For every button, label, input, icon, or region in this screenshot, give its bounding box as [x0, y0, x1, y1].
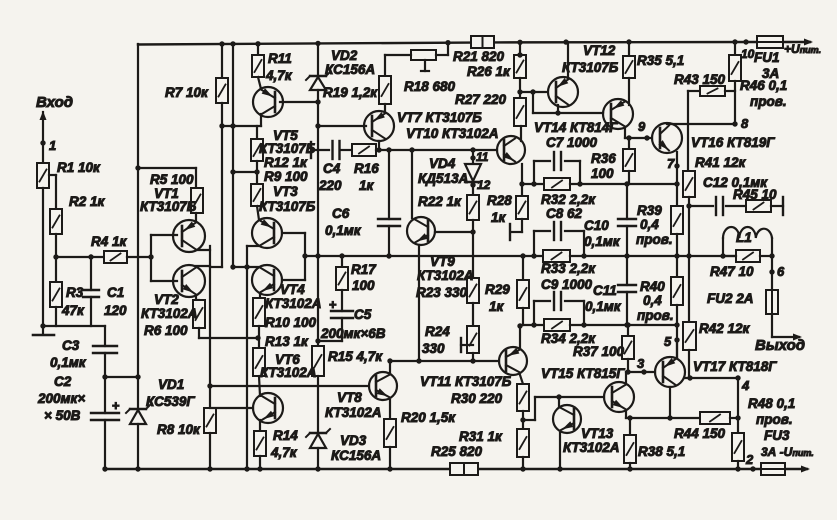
svg-text:R21 820: R21 820 [453, 49, 505, 64]
svg-text:+: + [329, 297, 337, 312]
svg-text:R31 1к: R31 1к [459, 429, 503, 444]
svg-text:0,1мк: 0,1мк [585, 299, 622, 314]
svg-text:R28: R28 [487, 193, 512, 208]
svg-text:КТ3102А: КТ3102А [417, 268, 474, 283]
svg-text:R5 100: R5 100 [150, 172, 194, 187]
svg-text:R10 100: R10 100 [265, 315, 317, 330]
svg-text:R8 10к: R8 10к [157, 422, 201, 437]
svg-text:C2: C2 [54, 374, 72, 389]
svg-text:VT2: VT2 [154, 292, 179, 307]
svg-text:R48 0,1: R48 0,1 [748, 396, 795, 411]
svg-text:Вход: Вход [36, 94, 73, 111]
svg-text:4,7к: 4,7к [265, 68, 293, 83]
svg-text:R6 100: R6 100 [144, 323, 188, 338]
svg-text:4: 4 [741, 378, 750, 393]
svg-text:VD2: VD2 [331, 48, 358, 63]
svg-text:R7 10к: R7 10к [165, 85, 209, 100]
svg-text:1к: 1к [489, 299, 505, 314]
svg-text:200мк×: 200мк× [37, 391, 85, 406]
svg-text:R2 1к: R2 1к [69, 194, 106, 209]
svg-text:R1 10к: R1 10к [57, 160, 101, 175]
svg-text:× 50В: × 50В [44, 408, 81, 423]
svg-text:КД513А: КД513А [418, 171, 468, 186]
svg-text:R29: R29 [485, 282, 510, 297]
svg-text:КТ3107Б: КТ3107Б [259, 141, 316, 156]
svg-text:R41 12к: R41 12к [695, 155, 747, 170]
svg-text:R30 220: R30 220 [451, 391, 503, 406]
svg-text:3А: 3А [762, 66, 779, 81]
svg-text:0,4: 0,4 [643, 293, 662, 308]
svg-text:VT12: VT12 [583, 43, 616, 58]
svg-text:R12 1к: R12 1к [264, 155, 308, 170]
svg-text:7: 7 [667, 156, 675, 171]
svg-text:R15 4,7к: R15 4,7к [328, 349, 383, 364]
svg-text:R20 1,5к: R20 1,5к [401, 410, 456, 425]
svg-text:C10: C10 [584, 218, 609, 233]
svg-text:R42 12к: R42 12к [699, 321, 751, 336]
svg-text:12: 12 [477, 178, 491, 192]
svg-text:КТ3107Б: КТ3107Б [259, 199, 316, 214]
svg-text:9: 9 [638, 119, 646, 134]
svg-text:R11: R11 [268, 51, 292, 66]
svg-text:КТ3102А: КТ3102А [265, 296, 322, 311]
svg-text:VT3: VT3 [273, 184, 298, 199]
svg-text:VT13: VT13 [581, 426, 614, 441]
svg-text:R14: R14 [273, 428, 298, 443]
svg-text:0,4: 0,4 [640, 217, 659, 232]
svg-text:6: 6 [777, 264, 785, 279]
svg-text:1к: 1к [359, 178, 375, 193]
svg-text:VT17 КТ818Г: VT17 КТ818Г [693, 359, 777, 374]
svg-text:КТ3107Б: КТ3107Б [562, 60, 619, 75]
svg-text:R45 10: R45 10 [733, 187, 777, 202]
svg-text:R22 1к: R22 1к [418, 194, 462, 209]
svg-text:FU2 2А: FU2 2А [707, 291, 754, 306]
svg-text:FU1: FU1 [754, 50, 780, 65]
svg-text:R25 820: R25 820 [431, 444, 483, 459]
svg-text:R23 330: R23 330 [416, 285, 468, 300]
svg-text:пров.: пров. [750, 94, 787, 109]
svg-text:200мк×6В: 200мк×6В [320, 326, 386, 341]
svg-text:C8 62: C8 62 [546, 206, 583, 221]
svg-text:R33 2,2к: R33 2,2к [541, 261, 596, 276]
svg-text:C4: C4 [323, 161, 341, 176]
svg-text:0,1мк: 0,1мк [325, 223, 362, 238]
svg-text:C11: C11 [593, 283, 617, 298]
svg-text:R39: R39 [637, 203, 662, 218]
svg-text:VD3: VD3 [340, 433, 367, 448]
svg-text:КТ3102А: КТ3102А [260, 365, 317, 380]
svg-text:КТ3102А: КТ3102А [563, 440, 620, 455]
svg-text:100: 100 [591, 166, 614, 181]
svg-text:R26 1к: R26 1к [467, 64, 511, 79]
svg-text:C6: C6 [332, 206, 350, 221]
svg-text:R44 150: R44 150 [674, 426, 726, 441]
svg-text:VD4: VD4 [429, 156, 456, 171]
svg-text:R37 100: R37 100 [573, 344, 625, 359]
svg-text:R36: R36 [591, 151, 616, 166]
svg-text:8: 8 [741, 116, 749, 131]
svg-text:R17: R17 [351, 262, 377, 277]
svg-text:пров.: пров. [637, 308, 674, 323]
svg-text:0,1мк: 0,1мк [50, 355, 87, 370]
svg-text:10: 10 [741, 47, 755, 61]
svg-text:VT8: VT8 [337, 390, 362, 405]
svg-text:VD1: VD1 [158, 377, 184, 392]
svg-text:2: 2 [745, 452, 754, 467]
svg-text:C7 1000: C7 1000 [546, 135, 598, 150]
svg-text:VT15 КТ815Г: VT15 КТ815Г [541, 366, 625, 381]
svg-text:C5: C5 [354, 307, 372, 322]
svg-text:R27 220: R27 220 [455, 92, 507, 107]
svg-text:КТ3107Б: КТ3107Б [140, 199, 197, 214]
svg-text:R38 5,1: R38 5,1 [638, 444, 685, 459]
svg-text:VT7 КТ3107Б: VT7 КТ3107Б [397, 110, 482, 125]
svg-text:КС539Г: КС539Г [146, 394, 195, 409]
svg-text:R35 5,1: R35 5,1 [637, 53, 684, 68]
svg-text:VT16 КТ819Г: VT16 КТ819Г [691, 135, 775, 150]
svg-text:R4 1к: R4 1к [91, 234, 128, 249]
svg-text:КТ3102А: КТ3102А [141, 306, 198, 321]
svg-text:L1: L1 [736, 230, 752, 245]
svg-text:R13 1к: R13 1к [265, 334, 309, 349]
svg-text:VT14 КТ814Г: VT14 КТ814Г [534, 120, 618, 135]
svg-text:R3: R3 [66, 285, 84, 300]
svg-text:220: 220 [318, 178, 342, 193]
svg-text:R43 150: R43 150 [674, 72, 726, 87]
svg-text:11: 11 [476, 150, 489, 164]
svg-text:R18 680: R18 680 [404, 79, 456, 94]
svg-text:47к: 47к [61, 303, 85, 318]
svg-text:330: 330 [422, 341, 445, 356]
svg-text:R16: R16 [354, 161, 379, 176]
svg-text:+Uпит.: +Uпит. [784, 42, 821, 56]
svg-text:3: 3 [637, 356, 645, 371]
svg-text:пров.: пров. [636, 232, 673, 247]
svg-text:1к: 1к [491, 210, 507, 225]
svg-text:Выход: Выход [755, 337, 805, 354]
svg-text:КС156А: КС156А [331, 448, 381, 463]
svg-text:R9 100: R9 100 [264, 169, 308, 184]
svg-text:R40: R40 [640, 279, 665, 294]
svg-text:VT11 КТ3107Б: VT11 КТ3107Б [420, 374, 512, 389]
svg-text:VT9: VT9 [430, 254, 455, 269]
svg-text:R47 10: R47 10 [710, 264, 754, 279]
svg-text:C1: C1 [107, 285, 124, 300]
svg-text:0,1мк: 0,1мк [584, 234, 621, 249]
svg-text:C9 1000: C9 1000 [541, 277, 593, 292]
svg-text:120: 120 [104, 303, 127, 318]
svg-text:FU3: FU3 [764, 428, 790, 443]
svg-text:4,7к: 4,7к [270, 445, 298, 460]
svg-text:100: 100 [352, 278, 375, 293]
svg-text:R32 2,2к: R32 2,2к [541, 192, 596, 207]
svg-text:пров.: пров. [756, 412, 793, 427]
svg-text:VT4: VT4 [280, 282, 305, 297]
svg-text:КС156А: КС156А [325, 62, 375, 77]
svg-text:+: + [112, 398, 120, 413]
svg-text:R24: R24 [425, 324, 450, 339]
svg-text:3А -Uпит.: 3А -Uпит. [761, 445, 814, 459]
svg-text:КТ3102А: КТ3102А [325, 405, 382, 420]
svg-text:VT10 КТ3102А: VT10 КТ3102А [406, 126, 499, 141]
svg-text:R19 1,2к: R19 1,2к [323, 85, 378, 100]
svg-text:C3: C3 [62, 338, 80, 353]
svg-text:5: 5 [664, 334, 672, 349]
svg-text:1: 1 [49, 138, 56, 153]
